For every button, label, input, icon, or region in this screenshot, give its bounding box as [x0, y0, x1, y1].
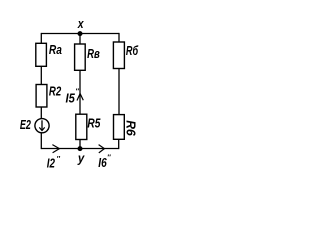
resistor R6 — [114, 115, 138, 140]
wire bottom rail — [41, 148, 118, 150]
resistor R2 — [36, 85, 61, 108]
wire R6 to bottom rail — [118, 139, 120, 149]
wire left branch: top corner to Ra — [40, 33, 42, 44]
svg-text:y: y — [77, 151, 85, 165]
wire E2 to bottom rail — [40, 133, 42, 149]
wire top rail — [41, 33, 119, 35]
svg-text:E2: E2 — [20, 118, 31, 132]
svg-text:Rб: Rб — [126, 44, 139, 58]
svg-text:I2: I2 — [47, 156, 55, 170]
svg-text:R2: R2 — [49, 85, 61, 99]
svg-text:R5: R5 — [87, 117, 101, 131]
wire right branch: top corner to Rб — [118, 33, 120, 42]
resistor Rв — [75, 44, 101, 70]
node x — [77, 17, 85, 36]
source E2 — [20, 118, 49, 133]
wire Rв to R5 — [79, 70, 81, 114]
svg-text:″: ″ — [107, 152, 111, 161]
resistor Ra — [36, 43, 62, 66]
resistor Rб — [113, 42, 139, 69]
wire node x to Rv — [79, 34, 81, 45]
wire R2 to E2 — [40, 107, 42, 119]
wire R5 to node y — [79, 140, 81, 149]
node y — [77, 146, 85, 165]
svg-text:R6: R6 — [124, 120, 138, 137]
current I6 arrow — [98, 145, 111, 170]
svg-text:″: ″ — [56, 154, 60, 163]
svg-text:I5: I5 — [66, 92, 76, 106]
svg-text:Rв: Rв — [87, 47, 100, 61]
svg-text:″: ″ — [75, 87, 79, 96]
wire Ra to R2 — [40, 66, 42, 84]
resistor R5 — [76, 114, 101, 139]
current I5 arrow — [66, 87, 84, 106]
current I2 arrow — [47, 145, 61, 171]
svg-text:Ra: Ra — [49, 43, 62, 57]
wire Rб to R6 — [118, 69, 120, 115]
svg-text:x: x — [77, 17, 85, 31]
